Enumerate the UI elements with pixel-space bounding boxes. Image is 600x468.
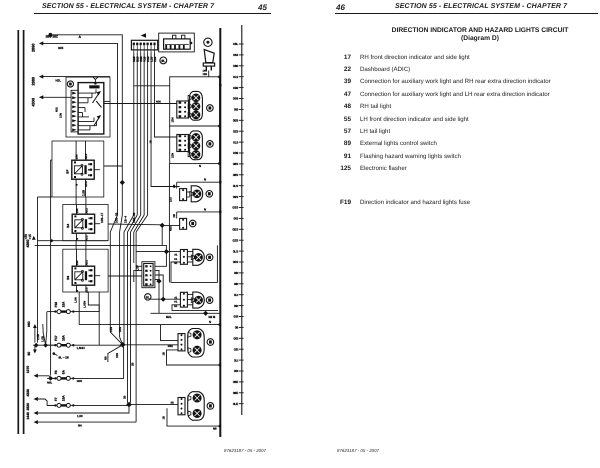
label N comp2 [199,164,201,168]
dashboard internal wiring steps [78,89,96,130]
lamp box 17 [170,77,220,126]
svg-text:2B: 2B [131,362,135,366]
svg-text:06E: 06E [233,380,238,384]
svg-text:06S: 06S [233,162,238,166]
svg-text:N: N [76,238,79,240]
bus row 240 [38,240,109,242]
wire comp8 return [167,408,221,427]
svg-text:0Z9: 0Z9 [233,129,239,133]
svg-text:4300: 4300 [32,98,36,106]
svg-text:0Lt: 0Lt [234,293,238,297]
svg-text:15N: 15N [76,208,79,213]
connector lamp 48 [180,189,187,201]
svg-text:N: N [76,184,79,186]
svg-text:09S: 09S [233,195,238,199]
svg-text:0ZS: 0ZS [233,238,239,242]
wire code ruler ticks [233,42,244,406]
svg-text:15A: 15A [62,301,66,308]
relay container 3 [63,249,108,292]
svg-text:A: A [79,35,82,39]
wiring loom from connector X1 [124,53,148,423]
svg-text:B8: B8 [66,276,70,280]
wires connector-lamp 17 [189,103,190,117]
svg-text:15N: 15N [60,113,63,118]
svg-text:N8: N8 [213,427,217,431]
svg-text:0LS: 0LS [233,249,238,253]
label N 48 [204,178,206,182]
wire F7 out [75,404,129,406]
wire code ruler line [241,25,243,415]
svg-text:09t: 09t [234,304,238,308]
lights switch base [203,63,214,66]
svg-text:1B–4: 1B–4 [124,216,128,223]
svg-text:12B: 12B [203,73,208,76]
svg-text:08S: 08S [233,173,238,177]
svg-text:N2L: N2L [56,78,62,82]
wire ADIC right edge stub [104,100,110,102]
fuse F7 15A [47,395,74,408]
wire label 023 [58,46,63,50]
connector lamp 47 [180,292,187,307]
dashboard ADIC outer box [66,77,110,137]
labels 47 [174,296,178,307]
lamp 55 LH front direction and side light [188,131,202,160]
wire F18 drop 1 [46,312,47,343]
svg-text:1,5NH: 1,5NH [77,346,85,350]
svg-text:1440: 1440 [26,412,30,420]
svg-text:0St: 0St [234,315,239,319]
svg-text:8N: 8N [78,423,82,427]
svg-text:02B: 02B [58,46,63,50]
wire X3 pin4 [155,279,159,281]
svg-text:0E9: 0E9 [233,119,239,123]
wire 2880 run [43,76,110,78]
svg-text:4330: 4330 [26,389,30,397]
label +15 [28,234,32,240]
component id circle 22 [67,81,73,87]
junction diamond X3-N [156,270,161,313]
label N8L mid [47,380,53,384]
footers [224,448,266,453]
junction diamond F18 drop [43,343,48,348]
dashboard ADIC main box [78,83,104,134]
svg-text:009: 009 [233,151,238,155]
right page title [380,27,580,34]
junction diamond 47 [161,297,166,302]
svg-text:3B: 3B [171,402,174,405]
svg-text:9L: 9L [146,295,150,299]
wire jog labels [109,327,122,332]
wire feed comp7 A [161,325,179,341]
svg-text:F8: F8 [54,370,58,374]
wire 57 return [171,245,217,282]
svg-text:10N: 10N [118,327,122,332]
offpage arrow 2880 [39,75,43,79]
svg-text:N: N [199,164,201,168]
svg-text:1,0B: 1,0B [41,336,45,342]
svg-text:B4: B4 [66,224,70,228]
wire X3 pin2 [155,270,159,272]
dashboard pin labels [56,107,63,118]
lamp box 55 [170,126,220,164]
wire diag loom [108,345,123,362]
wire F8 out [75,347,124,379]
svg-text:N2L: N2L [166,315,172,319]
lamp 47 rear (2-bulb) [188,392,205,421]
svg-text:15N: 15N [76,260,79,265]
connector lamp 57 [180,250,187,265]
offpage arrow 2890 [39,41,43,45]
fuse F18 15A [47,301,74,314]
svg-text:15N: 15N [171,153,175,158]
connector block X1 (7 pin) [131,40,157,52]
lamp 17 RH front direction and side light [188,91,202,120]
svg-text:N: N [76,290,79,292]
svg-text:2B: 2B [123,395,127,399]
svg-text:15A: 15A [62,395,66,402]
svg-text:1,5N: 1,5N [75,297,78,303]
svg-text:N8L: N8L [47,380,53,384]
svg-text:9L: 9L [161,59,165,63]
loom wire w1 join [123,344,124,346]
wire ADIC to lamp 17 [104,101,177,104]
label 2.5B [82,190,86,196]
svg-text:0tS: 0tS [234,217,239,221]
svg-text:0Et: 0Et [234,337,239,341]
wire label A [79,35,82,39]
right page header [336,3,345,12]
terminal 15-92 stub [53,352,69,359]
lamp 57 LH tail light [191,249,204,265]
svg-text:080: 080 [233,64,238,68]
label 15N comp2 [171,153,175,158]
wire right col return [168,164,170,283]
flasher relay unit 1 [66,141,100,197]
wire relay2 out [108,223,162,226]
svg-text:10B–39: 10B–39 [114,212,118,223]
svg-text:06L: 06L [233,42,238,46]
dashboard antenna symbol [93,77,98,84]
wire relay3 drops [75,292,100,345]
svg-text:15N: 15N [76,154,79,159]
component id circle 91 [160,57,167,64]
svg-text:N2 B: N2 B [209,315,217,319]
svg-text:2B: 2B [172,184,176,188]
svg-text:2880: 2880 [32,77,36,85]
label 4300 [32,98,36,106]
svg-text:1,05N: 1,05N [84,301,87,308]
offpage arrow 1070 [26,366,38,378]
wire connector-lamp 48 [187,192,190,197]
component id circle 17 [207,105,214,112]
wire 39 to bus [177,211,222,219]
svg-text:0ES: 0ES [233,228,239,232]
wire label 2B0-18Z [46,35,58,39]
junction diamond 39 [160,223,180,228]
svg-text:15N: 15N [115,353,119,358]
svg-text:2890: 2890 [32,44,36,52]
lamp 39 rear (2-bulb) [188,329,205,358]
wire loom pair join [128,403,131,405]
svg-text:BF: BF [66,170,70,174]
wire feed comp7 N [123,344,178,346]
component id circle 55 [207,141,214,148]
junction diamond 960 [34,343,39,348]
dashboard switch contact 2 [94,115,101,126]
lamp 48 RH tail light [190,186,203,202]
svg-text:H1: H1 [174,258,178,261]
page border left inner line [17,30,19,434]
labels 57 [174,254,178,265]
svg-text:08t: 08t [234,282,238,286]
svg-text:F18: F18 [54,302,58,308]
offpage arrow 960 [27,321,37,342]
wire X3 pin1 [155,252,167,267]
component id circle comp8 [207,403,214,410]
svg-text:0SS: 0SS [233,206,239,210]
wire 1440 run [38,421,136,423]
node A junction dot [49,33,53,37]
wire destination labels [100,212,136,223]
svg-text:1B: 1B [162,416,166,420]
wire relay3 out [108,275,142,277]
wire F18 out [75,292,100,312]
svg-text:A0.5: A0.5 [85,235,88,241]
svg-text:0Zt: 0Zt [234,347,239,351]
label +30 [24,234,28,240]
wire 47 feed [151,298,181,300]
loom wire to lamp 55 [155,53,177,138]
svg-text:A0.5: A0.5 [85,287,88,293]
wire F17 out [75,344,123,346]
offpage arrow 4300 [39,95,43,99]
offpage arrow 1440 [26,412,38,424]
page border left outer line [23,30,25,434]
label 8N [78,423,82,427]
svg-text:2820: 2820 [26,403,30,411]
svg-text:0LS: 0LS [233,184,238,188]
svg-text:0S9: 0S9 [233,97,239,101]
svg-text:2,5B: 2,5B [82,190,86,196]
component id circle 48 [206,191,213,198]
svg-text:1070: 1070 [26,366,30,374]
svg-text:4350: 4350 [26,240,30,248]
label 1.5G [77,414,83,418]
svg-text:15A: 15A [62,334,66,341]
junction diamond 57 [164,249,169,254]
label N 39 [204,207,206,211]
svg-text:10B–30: 10B–30 [132,212,136,223]
wire label N21 top [56,78,62,82]
connector lamp 55 [177,135,189,152]
svg-text:N05: N05 [156,101,161,104]
svg-text:099: 099 [233,86,238,90]
svg-text:00t: 00t [234,369,238,373]
svg-text:F17: F17 [54,335,58,341]
component id circle 91b [145,294,151,300]
junction dot left col [50,239,53,242]
label 4350 [26,236,36,248]
wire left col 1 [38,197,53,343]
svg-text:1,50: 1,50 [77,414,83,418]
label 1.0B [41,336,45,342]
svg-text:9L – 26: 9L – 26 [59,355,69,359]
wire 4330 run [38,399,56,405]
svg-text:0tt: 0tt [235,326,239,330]
dashboard internal bar [89,85,99,88]
labels 14B comp1 top [203,70,208,76]
legend list [335,53,595,55]
svg-text:1,5B: 1,5B [36,334,40,340]
junction diamonds bottom loom [120,342,132,407]
lamp 47 [191,292,204,308]
relay container 2 [63,204,108,240]
wire 57 feed [136,251,180,253]
component id circle comp7 [207,339,214,346]
offpage arrow 4330 [26,389,38,401]
svg-text:08E: 08E [233,391,238,395]
wire loom to lamp box 17 [134,85,170,87]
svg-text:N01: N01 [56,107,59,112]
svg-text:A1: A1 [174,296,178,299]
svg-text:A5.0: A5.0 [85,153,88,159]
bus 4350 horizontal [35,245,167,251]
offpage arrow above X1 [141,33,146,37]
label 15N comp1 [171,117,175,122]
wire into lamp 55 box [150,137,177,144]
flasher relay unit 3 [66,249,100,293]
loom wire to lamp 48 [151,53,180,187]
connector block X3 outer [142,262,155,288]
svg-text:A0.5: A0.5 [85,181,88,187]
offpage arrow 80 [27,345,37,355]
svg-text:5A: 5A [62,369,66,374]
component id circle 57 [206,254,213,261]
svg-text:F7: F7 [54,397,58,401]
connector 39 [180,218,187,229]
lights switch lever [204,50,214,63]
svg-text:A5.0: A5.0 [85,259,88,265]
offpage arrow 2820 [26,403,38,415]
svg-text:18N: 18N [77,379,82,383]
svg-text:H1: H1 [174,301,178,304]
junction diamond F8 feed [48,376,56,381]
svg-text:N8: N8 [104,356,108,360]
svg-text:N25: N25 [170,226,173,231]
labels comp7 [162,320,212,355]
main earth bus wire N (right) [219,28,221,437]
label 2880 [32,77,36,85]
svg-text:15U: 15U [170,197,173,202]
label 1.5V X3 [136,265,140,271]
svg-text:00S: 00S [233,260,238,264]
svg-text:N: N [204,178,206,182]
svg-text:084: 084 [233,53,238,57]
wire X3 left feeds [134,266,142,282]
svg-text:0L9: 0L9 [233,75,238,79]
wire 48 to bus [177,181,222,189]
svg-text:N: N [204,207,206,211]
lights switch pins [206,66,211,70]
wires connector-lamp 57 [187,252,192,262]
wire switch to lamp box [208,71,210,77]
svg-text:06t: 06t [234,271,238,275]
wire 4300 run [43,96,71,98]
wire F17 feed row [33,344,56,346]
svg-text:10B–17: 10B–17 [100,212,104,223]
connector block X2 flasher socket 125 [159,33,195,52]
left page header [42,3,214,10]
svg-text:0Lt: 0Lt [234,358,238,362]
label 1.5B [36,334,40,340]
labels loom bottom [104,353,135,399]
svg-text:A5.0: A5.0 [85,207,88,213]
fuse F17 15A [47,334,74,347]
label 18N [77,379,82,383]
wire 2820 run [38,407,129,413]
junction diamond relay out [120,180,125,185]
wire feed A [50,35,122,345]
svg-text:0t9: 0t9 [234,108,239,112]
svg-text:15N: 15N [171,117,175,122]
wire feed comp8 [129,402,178,405]
svg-text:0L9: 0L9 [233,140,238,144]
connector block X3 (5 pin) [144,264,153,286]
connector X1 wire labels [132,56,157,62]
wire 39 drop to bus4350 [161,225,163,245]
bus wire row 325 [79,323,221,325]
wires connector-lamp 47 [187,294,192,304]
wire 1070 run [38,376,51,378]
svg-text:0LE: 0LE [233,402,238,406]
fuse F8 5A [47,369,74,380]
svg-text:2B0-18Z: 2B0-18Z [46,35,58,39]
component id circle 39 [189,220,196,227]
connector lamp 17 [177,101,189,118]
wire 2890 run [43,43,123,344]
svg-text:1B: 1B [162,352,166,356]
svg-text:A1: A1 [174,254,178,257]
connector lamp comp7 [178,334,185,351]
relay container 1 [52,141,104,197]
svg-text:12N: 12N [109,327,113,332]
labels 39 [170,214,177,231]
labels comp8 [162,416,217,431]
connector lamp comp8 [178,398,185,415]
wire F18 drop 2 [43,324,45,343]
svg-text:+15: +15 [28,234,32,240]
component id circle 89 [204,38,212,46]
labels 48 [170,184,177,202]
component id circle 47 [206,297,213,304]
svg-text:N51: N51 [168,344,174,348]
label 1.5NH [77,346,85,350]
bus N21 row [151,311,221,320]
bus junction dots comp1/2 [218,76,221,165]
wire comp7 return [167,350,222,366]
label 2890 [32,44,36,52]
dashboard switch contact 1 [93,91,102,108]
wire container links [76,197,86,249]
svg-text:80: 80 [27,352,31,356]
flasher relay unit 2 [66,204,100,240]
svg-text:2B: 2B [172,214,176,218]
wire 47 return [172,305,218,311]
wire relay1 out [104,165,123,167]
svg-text:960: 960 [27,321,31,327]
svg-text:1B: 1B [150,140,153,143]
wire X3 pin3 [155,275,163,299]
